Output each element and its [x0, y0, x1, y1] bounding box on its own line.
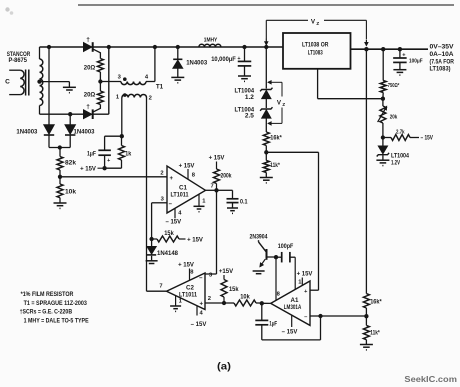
svg-text:+: + [107, 158, 110, 164]
wire snubber bottom [104, 155, 106, 168]
label 1N4003 left [16, 129, 38, 135]
label LT1004 1.2 [235, 89, 255, 101]
svg-text:SeekIC.com: SeekIC.com [404, 374, 457, 384]
svg-text:2.7k: 2.7k [396, 129, 405, 135]
resistor 11k* left [263, 152, 269, 177]
svg-text:1N4003: 1N4003 [186, 61, 208, 67]
junction left diode top [47, 45, 51, 49]
transformer core [26, 70, 29, 96]
capacitor 100pF [276, 252, 295, 263]
ground catch diode [171, 77, 184, 82]
ground 10000uF [238, 76, 251, 81]
svg-text:LT1011: LT1011 [171, 192, 190, 198]
T1 phasing dot bottom [123, 93, 127, 97]
svg-text:1.2V: 1.2V [391, 160, 400, 166]
label 1N4003 catch [186, 61, 208, 67]
label 1N4148 [157, 251, 179, 257]
svg-text:†SCRs = G.E. C-220B: †SCRs = G.E. C-220B [20, 309, 73, 316]
diode 1N4148 [147, 239, 156, 261]
label C1 +15V [179, 163, 195, 169]
C2 pin1 [175, 296, 177, 306]
junction center tap [37, 79, 41, 83]
junction +15V snubber [102, 166, 106, 170]
svg-text:+ 15V: + 15V [297, 271, 313, 277]
label +15V 15k [187, 237, 203, 243]
svg-text:16k*: 16k* [370, 299, 382, 305]
capacitor 100uF [393, 49, 407, 69]
label 1MHY [204, 38, 218, 44]
junction catch diode [176, 45, 180, 49]
label C1 pin1 [202, 198, 206, 204]
diode 1N4003 right [65, 125, 75, 148]
wire top rail [40, 46, 284, 48]
T1 winding 3-4 [121, 82, 146, 85]
resistor 200k [214, 162, 220, 191]
wire C2 output [147, 290, 167, 292]
op-amp A1 LM301A [271, 281, 310, 325]
junction SCR gate divider [98, 79, 102, 83]
wire snubber to 1k [105, 160, 122, 168]
label 16k* right [370, 299, 382, 305]
wire T1 pin1 down [121, 98, 123, 137]
junction C2 pin2 node [222, 301, 226, 305]
wire bridge right vertical [108, 47, 110, 114]
svg-text:– 15V: – 15V [421, 136, 434, 142]
A1 pin4 [291, 315, 293, 327]
A1 pin8 line [275, 257, 277, 300]
op-amp C2 LT1011 [167, 273, 206, 310]
label 10k series [240, 294, 250, 300]
resistor 10k series [224, 300, 262, 306]
svg-text:P-8675: P-8675 [8, 57, 27, 64]
svg-text:20Ω: 20Ω [84, 91, 96, 98]
C2 pin4 [196, 306, 198, 316]
svg-text:10k: 10k [65, 188, 77, 195]
VZ bracket stack [268, 81, 282, 125]
ground 0.1 [227, 208, 238, 213]
junction A1 minus [318, 314, 322, 318]
label 200k [221, 173, 233, 179]
SCR1 dagger mark [86, 37, 90, 44]
transformer STANCOR P-8675 label [7, 51, 31, 64]
SCR2 [84, 105, 101, 120]
svg-text:1k: 1k [125, 151, 132, 157]
svg-text:2: 2 [208, 296, 211, 302]
zener LT1004-2.5 [260, 107, 272, 132]
zener LT1004-1.2V right [377, 138, 389, 161]
junction snubber top [120, 134, 124, 138]
svg-text:*1% FILM RESISTOR: *1% FILM RESISTOR [21, 291, 74, 298]
svg-text:0.1: 0.1 [240, 199, 248, 205]
label T1 pin2 [149, 95, 152, 101]
wire right diode drop [69, 114, 71, 124]
wire A1 output [262, 302, 271, 304]
T1 winding 1-2 [122, 94, 147, 97]
resistor 15k pullup [221, 275, 227, 303]
label C2 pin7 [159, 283, 162, 289]
svg-text:20k: 20k [390, 115, 398, 121]
svg-text:11k*: 11k* [270, 163, 280, 169]
label 2.7k [396, 129, 405, 135]
op-amp C1 LT1011 [167, 166, 206, 213]
label VZ top [311, 18, 319, 26]
label 750 ohm [388, 83, 400, 89]
label plus 10000uF [237, 56, 240, 62]
wire C1 output [206, 189, 217, 191]
wire output sense vertical [365, 49, 367, 293]
transformer secondary winding [40, 47, 43, 114]
label LT1004 2.5 [235, 108, 255, 120]
ground 2N3904 [253, 271, 265, 276]
label 1uF integrator [269, 321, 277, 327]
svg-text:1N4003: 1N4003 [74, 129, 96, 135]
svg-text:20Ω: 20Ω [84, 64, 96, 71]
svg-text:0V–35V: 0V–35V [430, 43, 455, 50]
svg-text:LT1083): LT1083) [430, 66, 451, 73]
label C1 pin4 [178, 210, 182, 216]
diode 1N4003 catch [173, 47, 183, 77]
diode 1N4003 left [44, 125, 54, 148]
label C2 pin4 [200, 310, 204, 316]
label 11k* right [370, 330, 380, 336]
svg-text:200k: 200k [221, 173, 233, 179]
C1 pin1 [198, 194, 200, 206]
junction 10000uF [242, 45, 246, 49]
svg-text:15k: 15k [164, 231, 174, 237]
svg-text:100μF: 100μF [409, 58, 423, 64]
wire 20ohm node to T1 pin3 [100, 81, 121, 83]
junction 20k bottom [381, 135, 385, 139]
svg-text:11k*: 11k* [370, 330, 380, 336]
resistor 16k* left [263, 132, 269, 152]
C2 pin8 [189, 269, 191, 281]
top rule line [78, 4, 454, 6]
resistor 10k bias [57, 177, 63, 203]
transistor Q1 2N3904 [259, 240, 277, 266]
resistor 20&#937; lower [97, 82, 103, 105]
ground 100uF [393, 70, 406, 75]
label 0.1 [240, 199, 248, 205]
label LT1083 [308, 50, 323, 57]
junction A1 input [260, 301, 264, 305]
scan artifact [5, 7, 13, 14]
junction ADJ [381, 97, 385, 101]
wire output rail [351, 48, 428, 50]
A1 pin1 line [294, 257, 296, 289]
ground LT1004 right [376, 160, 389, 165]
svg-text:+ 15V: + 15V [179, 163, 195, 169]
svg-text:C: C [5, 79, 10, 86]
label T1 pin4 [145, 75, 149, 81]
label A1 pin8 [277, 291, 281, 297]
label C1 pin7 [211, 183, 214, 189]
label C1 pin8 [192, 172, 196, 178]
SCR2 dagger mark [86, 104, 90, 111]
svg-text:2: 2 [160, 171, 163, 177]
label VZ stack [277, 99, 285, 107]
resistor 2.7k [383, 135, 419, 141]
label C1 pin2 [160, 171, 163, 177]
label C1 [179, 184, 187, 191]
caption (a) [217, 361, 231, 372]
wire ADJ pin [318, 69, 383, 99]
svg-text:Z: Z [282, 102, 285, 107]
label C1 -15V [165, 219, 181, 225]
label 100pF [278, 244, 294, 250]
label C2 [186, 284, 194, 291]
svg-text:– 15V: – 15V [282, 329, 298, 335]
label 10k bias [65, 188, 77, 195]
wire T1 pin2 to C2 output [146, 98, 148, 292]
svg-text:+15V: +15V [219, 269, 233, 275]
svg-text:1.2: 1.2 [245, 95, 255, 101]
label C2 pin2 [208, 296, 211, 302]
wire input rail to stack [265, 47, 267, 89]
label A1 -15V [282, 329, 298, 335]
label +15V 200k [209, 155, 225, 161]
ground C2 pin1 [170, 306, 181, 311]
svg-text:750Ω*: 750Ω* [388, 83, 400, 89]
junction sense tap [364, 47, 368, 51]
wire center tap [40, 82, 70, 88]
label 100uF [409, 58, 423, 64]
notes block [20, 291, 89, 324]
svg-text:2.5: 2.5 [245, 113, 255, 119]
label LT1011 C1 [171, 192, 190, 198]
junction left divider [264, 150, 268, 154]
svg-text:T1: T1 [156, 84, 164, 91]
label 15k bias [164, 231, 174, 237]
wire sense line to C1 [60, 176, 167, 178]
svg-text:1N4003: 1N4003 [16, 129, 38, 135]
label 20k [390, 115, 398, 121]
label output [430, 43, 455, 72]
junction bridge right top [107, 45, 111, 49]
wire left diode drop [48, 47, 50, 125]
label C2 -15V [191, 322, 207, 328]
potentiometer 20k [378, 99, 387, 138]
svg-text:– 15V: – 15V [191, 322, 207, 328]
svg-text:+: + [237, 56, 240, 62]
resistor 750&#937;* [380, 49, 386, 98]
svg-text:†: † [86, 104, 90, 111]
label C2 pin1 [179, 299, 183, 305]
svg-text:15k: 15k [229, 287, 239, 293]
label -15V right [421, 136, 434, 142]
junction stack top [264, 45, 268, 49]
svg-text:1MHY: 1MHY [204, 38, 218, 44]
svg-text:T1 = SPRAGUE 11Z-2003: T1 = SPRAGUE 11Z-2003 [24, 300, 88, 307]
SCR1 [84, 42, 101, 58]
junction 82k-10k node [58, 175, 62, 179]
svg-text:LT1004: LT1004 [235, 89, 255, 95]
svg-text:LM301A: LM301A [284, 305, 302, 311]
junction right divider [364, 314, 368, 318]
wire A1 minus input [310, 315, 321, 317]
junction right diode top [68, 112, 72, 116]
svg-text:2: 2 [149, 95, 152, 101]
capacitor 10,000uF [238, 47, 252, 76]
label 2N3904 [250, 235, 269, 241]
label 15k pullup [229, 287, 239, 293]
wire feedback bottom [262, 316, 321, 340]
svg-text:+: + [200, 301, 204, 307]
ground center tap [63, 87, 76, 92]
label C1 plus [170, 176, 174, 182]
watermark SeekIC.com [404, 374, 457, 384]
junction 750 tap [381, 47, 385, 51]
label A1 +15V [297, 271, 313, 277]
resistor 82k [57, 148, 63, 177]
inductor 1MHY [199, 44, 221, 47]
label 16k* left [270, 136, 282, 142]
label C2 minus [199, 275, 203, 281]
label 20 ohm upper [84, 64, 96, 71]
wire C1 out to C2 [205, 190, 217, 274]
wire ref divider to A1 [266, 152, 318, 290]
label C2 plus [200, 301, 204, 307]
junction C1 pin3 loop [149, 237, 153, 241]
svg-text:LT1004: LT1004 [391, 154, 410, 160]
label T1 pin1 [116, 94, 120, 100]
transformer primary winding [9, 70, 24, 94]
svg-text:82k: 82k [65, 159, 77, 166]
label LM301A [284, 305, 302, 311]
label 1uF snubber [87, 151, 96, 157]
label C2 +15V [178, 263, 194, 269]
label LT1011 C2 [179, 292, 198, 298]
svg-text:LT1083: LT1083 [308, 50, 323, 57]
T1 phasing dot top [123, 77, 127, 81]
label LT1038 OR [302, 42, 329, 49]
svg-text:LT1011: LT1011 [179, 292, 198, 298]
regulator U1 LT1038/LT1083 box [283, 33, 351, 69]
C1 pin8 [187, 169, 189, 179]
label C1 minus [169, 201, 173, 207]
svg-text:1μF: 1μF [269, 321, 277, 327]
junction C1 output [214, 188, 218, 192]
svg-text:+ 15V: + 15V [178, 263, 194, 269]
svg-text:Z: Z [316, 21, 319, 26]
resistor 15k bias [152, 236, 186, 242]
svg-text:1 MHY = DALE TO-5 TYPE: 1 MHY = DALE TO-5 TYPE [24, 317, 89, 324]
label C2 pin3 [209, 272, 213, 278]
label A1 [291, 297, 299, 304]
capacitor 0.1 [217, 190, 239, 208]
svg-text:10,000μF: 10,000μF [211, 57, 236, 63]
ground right divider [360, 345, 373, 350]
svg-text:+ 15V: + 15V [80, 167, 96, 173]
label C2 pin8 [190, 269, 194, 275]
label A1 plus [304, 289, 308, 295]
capacitor 1uF snubber [98, 150, 111, 155]
svg-text:+ 15V: + 15V [187, 237, 203, 243]
svg-text:7: 7 [211, 183, 214, 189]
zener LT1004-1.2 [260, 88, 272, 108]
wire diode join [49, 147, 70, 149]
junction T1 pin4 rail [153, 45, 157, 49]
svg-text:C1: C1 [179, 184, 187, 191]
ground 1N4148 [146, 261, 158, 266]
label +15V snubber [80, 167, 105, 173]
label 82k [65, 159, 77, 166]
wire T1 pin4 to rail [146, 47, 155, 82]
label A1 pin1 [298, 279, 302, 285]
svg-text:2N3904: 2N3904 [250, 235, 269, 241]
junction diode join [58, 145, 62, 149]
svg-text:LT1038 OR: LT1038 OR [302, 42, 329, 49]
svg-text:10k: 10k [240, 294, 250, 300]
ground 10k bias [54, 203, 67, 208]
svg-text:C2: C2 [186, 284, 194, 291]
svg-text:1N4148: 1N4148 [157, 251, 179, 257]
svg-text:+: + [170, 176, 174, 182]
label LT1004 right [391, 154, 410, 167]
label T1 pin3 [118, 74, 122, 80]
junction 100uF tap [398, 47, 402, 51]
svg-text:(a): (a) [217, 361, 231, 372]
A1 +15V pin [301, 278, 303, 286]
svg-text:7: 7 [159, 283, 162, 289]
svg-text:†: † [86, 37, 90, 44]
VZ bracket top [265, 20, 368, 45]
resistor 1k snubber [119, 136, 125, 160]
node C label [5, 79, 10, 86]
label plus snubber [107, 158, 110, 164]
wire snubber top [105, 136, 122, 150]
junction 100pF base [274, 255, 278, 259]
wire C2 pin2 [205, 302, 224, 304]
ground C1 pin1 [194, 206, 205, 211]
svg-text:+ 15V: + 15V [209, 155, 225, 161]
svg-text:16k*: 16k* [270, 136, 282, 142]
svg-text:0A–10A: 0A–10A [430, 51, 455, 58]
svg-text:(7.5A FOR: (7.5A FOR [430, 58, 455, 65]
label C1 pin3 [161, 196, 165, 202]
label 20 ohm lower [84, 91, 96, 98]
capacitor 1uF integrator [255, 303, 268, 340]
C1 pin4 [174, 208, 176, 218]
label 10,000uF [211, 57, 236, 63]
wire C1 pin3 [152, 203, 167, 239]
wire A1 minus to divider [321, 315, 367, 317]
label 11k* left [270, 163, 280, 169]
resistor 11k* right [363, 316, 369, 344]
label plus 100uF [402, 53, 406, 59]
label 1k snubber [125, 151, 132, 157]
svg-text:1μF: 1μF [87, 151, 96, 157]
svg-text:– 15V: – 15V [165, 219, 181, 225]
resistor 16k* right [363, 294, 369, 317]
svg-text:100pF: 100pF [278, 244, 294, 250]
ground left divider [260, 178, 273, 183]
label A1 minus [304, 315, 308, 321]
svg-text:A1: A1 [291, 297, 299, 304]
resistor 20&#937; upper [97, 59, 103, 82]
label +15V 15k pullup [219, 269, 233, 275]
label T1 [156, 84, 164, 91]
wire bottom rail [40, 113, 109, 115]
label 1N4003 right [74, 129, 96, 135]
